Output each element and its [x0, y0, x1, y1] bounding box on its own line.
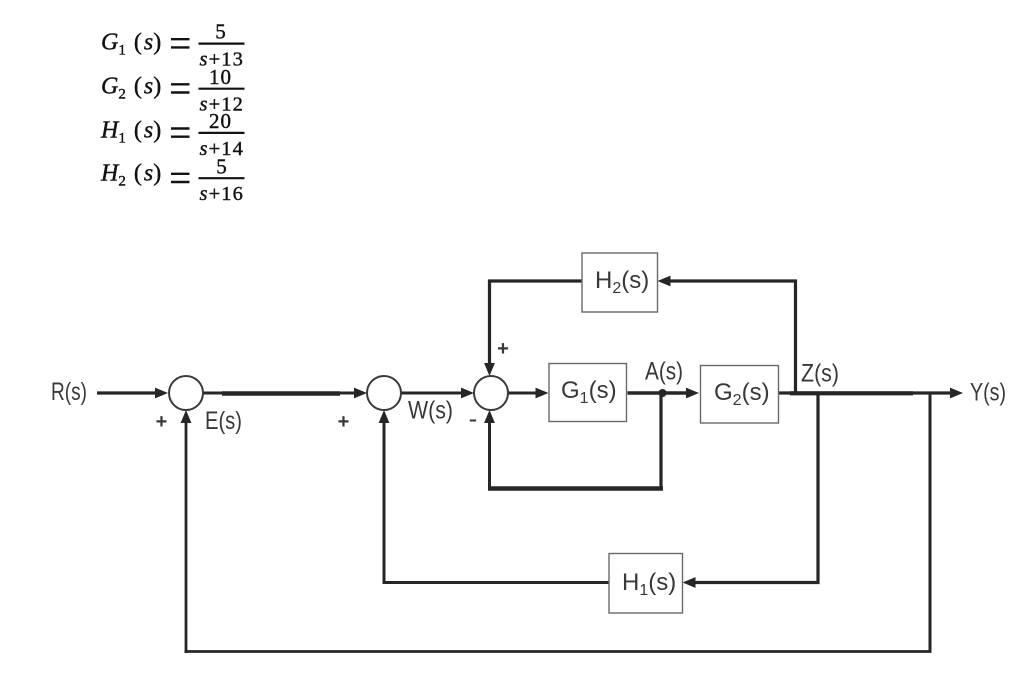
svg-text:H2 (s): H2 (s) [100, 161, 161, 190]
svg-text:+: + [497, 338, 509, 360]
svg-text:G1(s): G1(s) [561, 377, 617, 407]
svg-text:G1 (s): G1 (s) [101, 30, 161, 59]
svg-text:5: 5 [216, 154, 227, 178]
svg-text:H1 (s): H1 (s) [100, 118, 161, 147]
svg-text:s+16: s+16 [200, 183, 244, 205]
svg-text:-: - [469, 404, 478, 434]
svg-text:H2(s): H2(s) [595, 267, 649, 297]
svg-text:Z(s): Z(s) [801, 360, 839, 388]
svg-text:E(s): E(s) [205, 407, 242, 435]
svg-text:+: + [156, 411, 168, 433]
svg-text:G2 (s): G2 (s) [101, 73, 161, 102]
svg-text:A(s): A(s) [645, 358, 683, 386]
svg-text:G2(s): G2(s) [714, 379, 770, 409]
svg-text:10: 10 [209, 65, 232, 89]
svg-text:W(s): W(s) [408, 397, 453, 425]
svg-text:5: 5 [215, 20, 226, 44]
svg-text:R(s): R(s) [51, 378, 87, 406]
svg-text:20: 20 [209, 109, 232, 133]
svg-text:H1(s): H1(s) [622, 569, 676, 599]
svg-text:Y(s): Y(s) [970, 379, 1006, 407]
svg-text:+: + [338, 411, 350, 433]
